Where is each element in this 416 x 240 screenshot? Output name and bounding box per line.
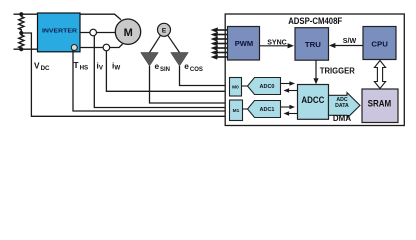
arrow ADCC to ADC1 xyxy=(284,111,298,116)
svg-text:E: E xyxy=(162,27,167,34)
svg-text:e: e xyxy=(184,61,189,71)
wire phase W line xyxy=(80,44,123,48)
svg-text:COS: COS xyxy=(190,67,203,73)
svg-text:M: M xyxy=(124,27,133,39)
node junction top xyxy=(19,12,23,16)
svg-text:DC: DC xyxy=(41,65,50,72)
svg-text:V: V xyxy=(34,61,40,71)
M0 input mux block xyxy=(230,78,242,97)
svg-text:HS: HS xyxy=(80,65,89,72)
svg-text:TRU: TRU xyxy=(305,40,321,49)
M1 input mux block xyxy=(230,100,243,121)
arrow ADC1 to ADCC xyxy=(281,105,295,110)
wire M0 to ADC0 xyxy=(242,85,248,87)
svg-text:DMA: DMA xyxy=(333,113,351,123)
node junction bottom xyxy=(19,47,23,51)
svg-text:SYNC: SYNC xyxy=(267,38,287,46)
wire encoder to cos amp xyxy=(168,35,180,52)
TRU block xyxy=(295,28,329,61)
svg-text:e: e xyxy=(155,61,160,71)
resistor R2 (divider lower) xyxy=(19,33,24,49)
ADC1 converter tag xyxy=(248,101,281,118)
svg-text:M1: M1 xyxy=(233,108,240,114)
encoder E xyxy=(158,23,171,36)
svg-text:SRAM: SRAM xyxy=(368,99,392,109)
ADC0 converter tag xyxy=(248,78,281,95)
amplifier eSIN triangle xyxy=(141,53,159,67)
svg-text:DATA: DATA xyxy=(335,103,349,109)
motor M xyxy=(115,19,140,44)
PWM block xyxy=(228,27,260,61)
resistor R1 (divider upper) xyxy=(19,14,24,33)
ADC DATA block arrow ADCC to SRAM xyxy=(329,93,361,119)
wire iV sense line xyxy=(94,36,229,108)
wire DC bus bottom rail xyxy=(14,48,41,50)
PWM output pin arrows xyxy=(211,27,228,59)
SYNC arrow PWM to TRU xyxy=(260,38,295,48)
svg-text:PWM: PWM xyxy=(235,39,254,48)
CPU block xyxy=(363,27,396,60)
svg-text:ADSP-CM408F: ADSP-CM408F xyxy=(288,16,343,26)
S/W arrow CPU to TRU xyxy=(329,37,363,48)
svg-text:M0: M0 xyxy=(232,85,239,91)
current sensor iV circle xyxy=(90,29,97,36)
TRIGGER arrow TRU to ADCC xyxy=(313,60,355,84)
svg-text:TRIGGER: TRIGGER xyxy=(320,67,355,76)
svg-text:ADC0: ADC0 xyxy=(260,84,275,90)
inverter block xyxy=(38,13,81,52)
double arrow CPU to SRAM xyxy=(374,61,385,89)
ADCC block xyxy=(298,85,329,120)
node junction mid VDC tap xyxy=(19,31,23,35)
arrow ADC0 to ADCC xyxy=(281,81,295,86)
wire THS sense line xyxy=(73,51,230,112)
wire M1 to ADC1 xyxy=(243,108,248,110)
svg-text:W: W xyxy=(114,65,120,72)
wire encoder to sin amp xyxy=(150,35,161,52)
wire iW sense line xyxy=(106,51,229,92)
wire eCOS line xyxy=(180,66,230,86)
arrow ADCC to ADC0 xyxy=(284,88,298,93)
wire phase V line xyxy=(80,32,115,34)
current sensor iW circle xyxy=(103,44,110,51)
SRAM block xyxy=(362,89,398,123)
svg-text:SIN: SIN xyxy=(160,67,170,73)
svg-text:T: T xyxy=(74,60,79,70)
wire VDC sense line xyxy=(21,33,229,116)
svg-text:S/W: S/W xyxy=(343,37,357,45)
svg-text:CPU: CPU xyxy=(371,40,388,49)
amplifier eCOS triangle xyxy=(171,53,189,67)
svg-text:ADC1: ADC1 xyxy=(260,107,275,113)
svg-text:INVERTER: INVERTER xyxy=(42,28,77,34)
ADSP-CM408F chip outline xyxy=(225,14,404,126)
svg-text:ADCC: ADCC xyxy=(301,95,325,105)
wire DC bus top rail xyxy=(14,14,122,20)
wire eSIN line xyxy=(150,66,230,103)
thermistor sensor circle xyxy=(71,45,77,51)
